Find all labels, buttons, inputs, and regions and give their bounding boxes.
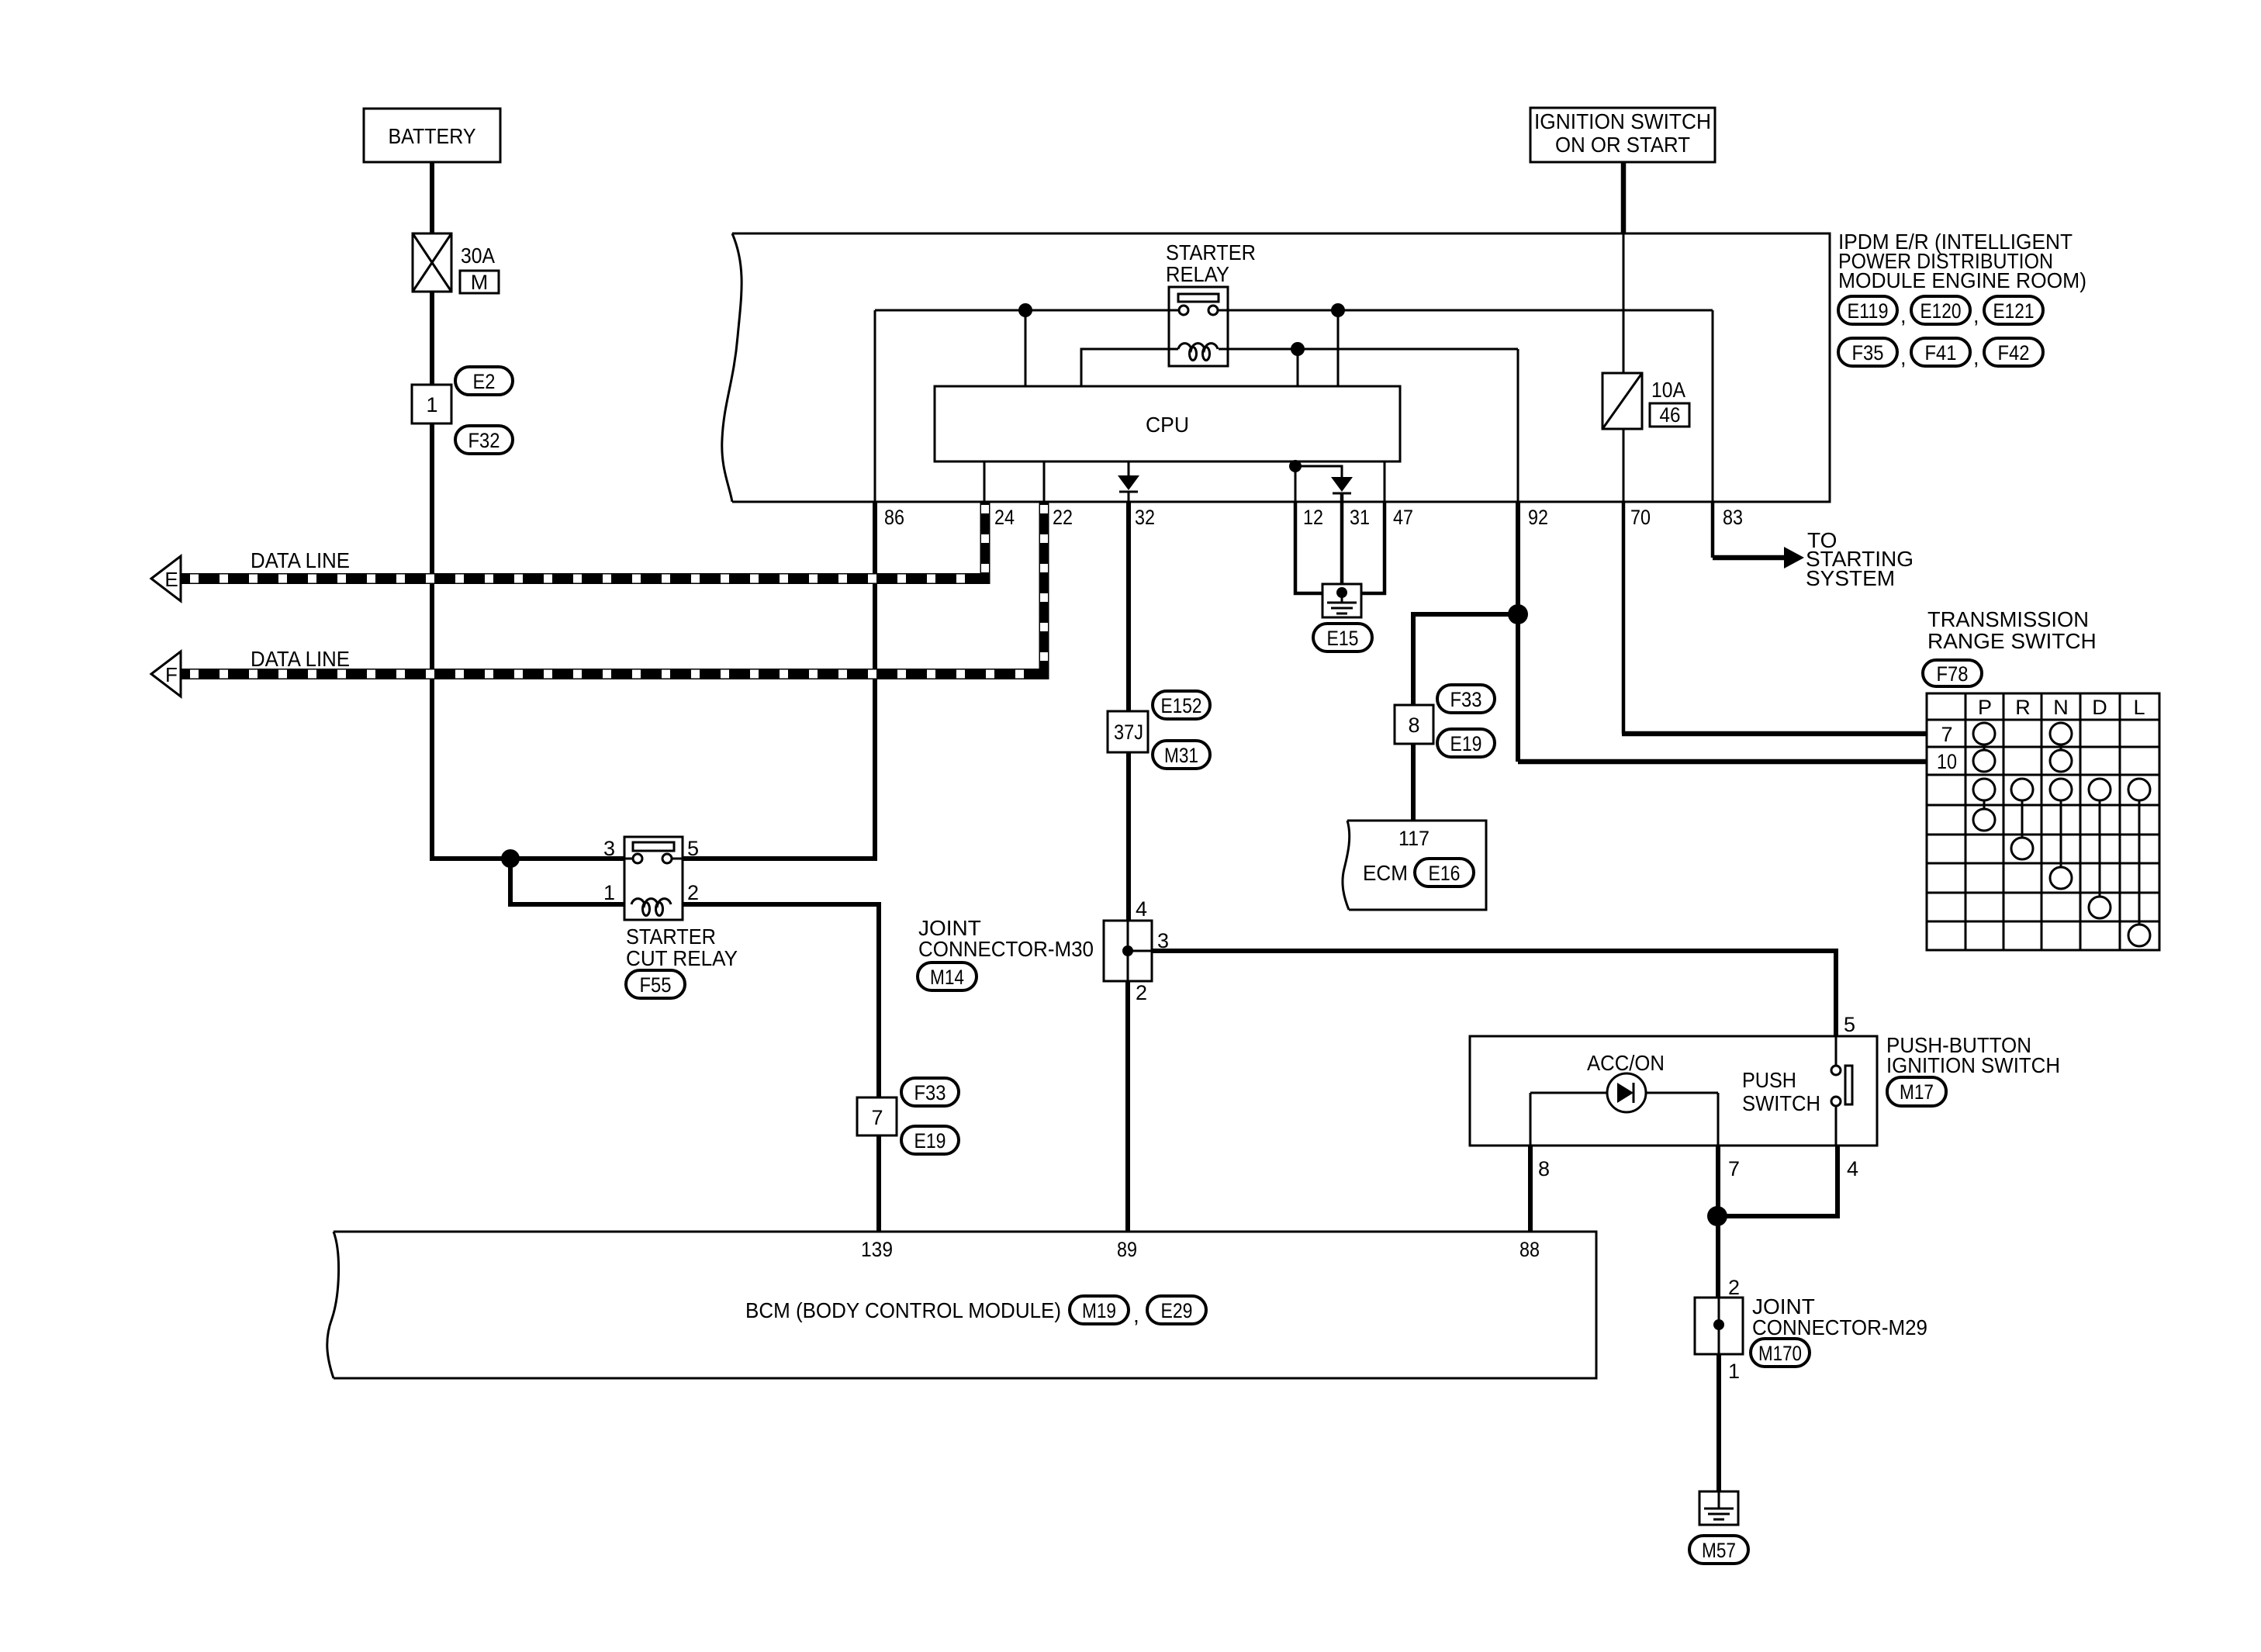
wire fuse to pin 70 xyxy=(1623,429,1625,502)
data line E dashed xyxy=(181,573,990,584)
node pin 92 branch xyxy=(1508,604,1528,624)
svg-text:ECM: ECM xyxy=(1363,861,1408,885)
svg-text:CONNECTOR-M29: CONNECTOR-M29 xyxy=(1752,1315,1927,1339)
wire pin 31 to ground E15 xyxy=(1340,502,1344,589)
svg-text:E: E xyxy=(164,568,178,591)
svg-text:,: , xyxy=(1900,304,1907,327)
wire connector 7 to BCM pin 139 xyxy=(876,1135,881,1232)
svg-text:32: 32 xyxy=(1135,506,1155,529)
svg-text:8: 8 xyxy=(1538,1157,1550,1180)
svg-text:ACC/ON: ACC/ON xyxy=(1587,1051,1665,1075)
wire M29 to ground M57 xyxy=(1716,1354,1721,1493)
wire switch pin 8 to BCM pin 88 xyxy=(1528,1146,1533,1232)
svg-text:83: 83 xyxy=(1723,506,1743,529)
svg-text:E29: E29 xyxy=(1161,1299,1193,1322)
svg-text:E121: E121 xyxy=(1993,299,2035,323)
IPDM E/R label xyxy=(1838,230,2086,292)
svg-text:4: 4 xyxy=(1847,1157,1858,1180)
ground M57 xyxy=(1689,1491,1748,1564)
table circle L column link xyxy=(2128,800,2150,946)
svg-text:R: R xyxy=(2015,696,2031,719)
svg-text:P: P xyxy=(1978,696,1992,719)
table circle N column link xyxy=(2050,800,2072,889)
wire pin 83 inside IPDM xyxy=(1712,310,1714,502)
wire ignition switch to IPDM xyxy=(1621,162,1627,233)
svg-text:F33: F33 xyxy=(1450,688,1482,711)
svg-text:E19: E19 xyxy=(1450,732,1482,755)
junction node battery feed xyxy=(501,849,520,868)
svg-text:TRANSMISSION: TRANSMISSION xyxy=(1927,607,2089,631)
BCM box xyxy=(327,1232,1596,1378)
svg-text:1: 1 xyxy=(426,393,437,416)
label to starting system xyxy=(1806,528,1914,590)
svg-text:IGNITION SWITCH: IGNITION SWITCH xyxy=(1886,1053,2060,1077)
wire starter cut relay pin 2 to connector 7 xyxy=(683,904,879,1099)
svg-text:BATTERY: BATTERY xyxy=(389,124,476,148)
svg-text:RANGE SWITCH: RANGE SWITCH xyxy=(1927,629,2097,653)
IPDM E/R box xyxy=(722,233,1830,502)
svg-text:,: , xyxy=(1973,304,1979,327)
table circle D column link xyxy=(2089,800,2111,918)
svg-text:F42: F42 xyxy=(1998,341,2030,365)
svg-text:M17: M17 xyxy=(1900,1080,1934,1104)
joint connector M29 (M170) xyxy=(1695,1276,1927,1383)
table contact circles row 10 xyxy=(1973,745,2072,772)
svg-text:2: 2 xyxy=(1136,981,1147,1004)
svg-text:ON OR START: ON OR START xyxy=(1555,133,1690,157)
svg-text:M: M xyxy=(471,271,489,294)
svg-text:N: N xyxy=(2053,696,2069,719)
svg-text:E119: E119 xyxy=(1848,299,1889,323)
svg-text:7: 7 xyxy=(871,1106,883,1129)
svg-text:DATA LINE: DATA LINE xyxy=(251,548,350,572)
connector box 7 (F33 / E19) xyxy=(857,1078,959,1154)
svg-text:F35: F35 xyxy=(1852,341,1884,365)
wire branch to connector 8 xyxy=(1413,614,1518,707)
svg-text:,: , xyxy=(1133,1303,1139,1327)
wire contact node right to CPU xyxy=(1337,310,1340,386)
svg-text:24: 24 xyxy=(994,506,1015,529)
wire pin 32 with diode xyxy=(1118,461,1139,502)
svg-text:D: D xyxy=(2092,696,2107,719)
svg-text:,: , xyxy=(1973,346,1979,369)
svg-text:F33: F33 xyxy=(914,1081,946,1104)
svg-text:MODULE ENGINE ROOM): MODULE ENGINE ROOM) xyxy=(1838,268,2086,292)
svg-text:E15: E15 xyxy=(1327,627,1359,650)
starter relay xyxy=(1166,240,1256,366)
svg-text:CPU: CPU xyxy=(1146,413,1189,437)
connector box 1 (E2 / F32) xyxy=(412,367,513,454)
joint connector M30 (M14) xyxy=(918,897,1169,1004)
svg-text:5: 5 xyxy=(1844,1013,1855,1036)
wire pin 22 inside IPDM xyxy=(1043,461,1046,502)
wire connector 1 down to junction xyxy=(432,423,512,859)
table circle P column link xyxy=(1973,800,1995,831)
starter cut relay F55 xyxy=(603,837,738,998)
wire 37J to joint connector M30 xyxy=(1126,752,1131,922)
svg-text:4: 4 xyxy=(1136,897,1147,921)
wire junction down to starter cut relay pin 1 xyxy=(510,859,626,904)
wire pin 70 to range switch row 7 xyxy=(1622,502,1626,734)
push-button ignition switch M17 xyxy=(1470,1013,2060,1146)
contact bus wire inside IPDM xyxy=(875,309,1713,312)
wire starter cut relay pin 5 up to IPDM pin 86 xyxy=(683,502,875,859)
svg-text:STARTER: STARTER xyxy=(1166,240,1256,264)
wire pin 31 inside IPDM xyxy=(1340,493,1344,502)
svg-text:7: 7 xyxy=(1941,723,1952,746)
wire fusible link to connector 1 xyxy=(430,292,434,386)
wire pin 24 dashed drop xyxy=(980,502,990,584)
svg-text:10: 10 xyxy=(1937,750,1957,773)
node contact line to CPU right xyxy=(1331,303,1345,317)
svg-text:E152: E152 xyxy=(1161,694,1202,717)
svg-text:STARTER: STARTER xyxy=(626,924,716,949)
coil return wire inside IPDM xyxy=(1081,349,1518,386)
wire pin 92 to range switch row 10 xyxy=(1518,759,1927,765)
svg-text:139: 139 xyxy=(861,1238,893,1261)
svg-text:DATA LINE: DATA LINE xyxy=(251,647,350,671)
wire pin 92 down xyxy=(1516,502,1520,762)
svg-text:E19: E19 xyxy=(914,1129,946,1153)
wire coil line down to pin 92 xyxy=(1517,349,1519,502)
data line F dashed xyxy=(181,669,1049,679)
connector box 8 (F33 / E19) xyxy=(1395,685,1495,757)
svg-text:E16: E16 xyxy=(1429,862,1461,885)
wire switch pin 4 down to junction xyxy=(1716,1146,1837,1216)
svg-text:F55: F55 xyxy=(640,973,672,997)
arrow F data line xyxy=(151,647,350,696)
svg-text:47: 47 xyxy=(1393,506,1413,529)
transmission range switch table xyxy=(1927,693,2159,950)
svg-text:SYSTEM: SYSTEM xyxy=(1806,566,1895,590)
svg-text:2: 2 xyxy=(687,881,699,904)
wire pin 22 dashed drop xyxy=(1039,502,1049,679)
connector ovals E119 E120 E121 xyxy=(1838,296,2043,327)
svg-text:92: 92 xyxy=(1528,506,1548,529)
node coil line to CPU xyxy=(1291,342,1305,356)
wire switch pin 7 down xyxy=(1716,1146,1720,1216)
svg-text:12: 12 xyxy=(1303,506,1323,529)
wire pin 83 to starting system xyxy=(1711,502,1715,558)
svg-text:M57: M57 xyxy=(1702,1539,1736,1562)
connector ovals F35 F41 F42 xyxy=(1838,338,2043,369)
svg-text:F41: F41 xyxy=(1925,341,1957,365)
svg-text:M19: M19 xyxy=(1082,1299,1116,1322)
node pin 12 to diode 31 xyxy=(1289,460,1302,472)
svg-text:1: 1 xyxy=(603,881,615,904)
wire pin 32 to joint connector M30 xyxy=(1126,502,1131,713)
svg-text:30A: 30A xyxy=(461,244,495,268)
fuse 10A 46 xyxy=(1602,373,1689,429)
svg-text:F78: F78 xyxy=(1937,662,1969,686)
svg-text:BCM (BODY CONTROL MODULE): BCM (BODY CONTROL MODULE) xyxy=(745,1298,1061,1322)
svg-text:8: 8 xyxy=(1408,714,1419,737)
svg-text:CONNECTOR-M30: CONNECTOR-M30 xyxy=(918,937,1094,961)
svg-text:F: F xyxy=(165,663,178,686)
fusible link 30A M xyxy=(413,233,499,294)
wire pin 24 inside IPDM xyxy=(984,461,986,502)
ignition switch box xyxy=(1530,108,1715,162)
wire pin 12 inside IPDM xyxy=(1295,461,1297,502)
transmission range switch label F78 xyxy=(1923,607,2097,686)
svg-text:M170: M170 xyxy=(1758,1342,1802,1365)
wire pin 12 to ground E15 xyxy=(1295,502,1322,593)
wire connector 8 to ECM xyxy=(1411,744,1416,821)
svg-text:E2: E2 xyxy=(473,370,496,393)
svg-text:SWITCH: SWITCH xyxy=(1742,1091,1820,1115)
svg-text:3: 3 xyxy=(603,837,615,860)
node contact line to CPU left xyxy=(1018,303,1032,317)
table circle R column link xyxy=(2011,800,2033,859)
svg-text:L: L xyxy=(2133,696,2145,719)
wire junction to starter cut relay pin 3 xyxy=(508,856,626,861)
svg-text:117: 117 xyxy=(1398,827,1430,850)
svg-text:F32: F32 xyxy=(468,429,500,452)
wire pin 47 to ground E15 xyxy=(1361,502,1385,593)
svg-text:M31: M31 xyxy=(1164,744,1198,767)
svg-text:1: 1 xyxy=(1728,1360,1740,1383)
svg-text:M14: M14 xyxy=(930,966,964,989)
svg-text:CUT RELAY: CUT RELAY xyxy=(626,946,738,970)
wire battery to fusible link xyxy=(430,162,434,235)
wire ignition feed inside IPDM xyxy=(1623,233,1625,375)
CPU U1 xyxy=(935,386,1400,461)
diode D31 xyxy=(1295,466,1353,493)
connector box 37J (E152 / M31) xyxy=(1108,691,1210,769)
svg-text:89: 89 xyxy=(1117,1238,1137,1261)
wire M30 pin 3 to push-button switch pin 5 xyxy=(1152,951,1836,1038)
arrow to starting system xyxy=(1784,547,1804,569)
table contact circles row all positions xyxy=(1973,779,2150,800)
svg-text:PUSH: PUSH xyxy=(1742,1068,1796,1092)
wire M30 pin 2 to BCM pin 89 xyxy=(1125,981,1130,1232)
ground E15 xyxy=(1313,584,1372,651)
arrow E data line xyxy=(151,548,350,601)
svg-text:22: 22 xyxy=(1053,506,1073,529)
svg-text:E120: E120 xyxy=(1920,299,1962,323)
svg-text:88: 88 xyxy=(1519,1238,1540,1261)
ECM box E16 xyxy=(1343,821,1486,910)
svg-text:86: 86 xyxy=(884,506,904,529)
battery B1 xyxy=(364,109,500,162)
wire pin 47 inside IPDM xyxy=(1384,461,1386,502)
svg-text:46: 46 xyxy=(1660,403,1681,427)
svg-text:7: 7 xyxy=(1728,1157,1740,1180)
table header letters xyxy=(1978,696,2145,719)
svg-text:10A: 10A xyxy=(1651,378,1685,402)
svg-text:IGNITION SWITCH: IGNITION SWITCH xyxy=(1534,109,1711,133)
wire pin 86 riser inside IPDM xyxy=(874,310,876,502)
table contact circles row 7 xyxy=(1973,723,2072,745)
svg-text:RELAY: RELAY xyxy=(1166,262,1229,286)
table row pins 7 and 10 xyxy=(1937,723,1957,773)
svg-text:31: 31 xyxy=(1350,506,1370,529)
junction node pins 7 and 4 xyxy=(1707,1206,1727,1226)
wire coil node to CPU xyxy=(1297,349,1299,386)
wire contact node to CPU xyxy=(1025,310,1027,386)
svg-text:37J: 37J xyxy=(1114,721,1143,744)
svg-text:,: , xyxy=(1900,346,1907,369)
svg-text:2: 2 xyxy=(1728,1276,1740,1299)
wire junction to joint connector M29 xyxy=(1716,1216,1720,1299)
svg-text:70: 70 xyxy=(1630,506,1651,529)
